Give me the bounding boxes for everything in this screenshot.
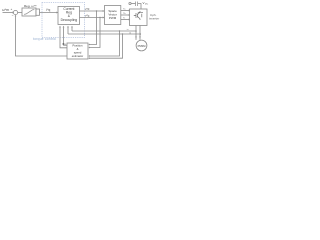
svg-text:PWM: PWM [109,16,117,20]
svg-text:DC: DC [145,4,149,6]
arrow gate b [129,14,131,16]
arrow gate c [129,19,131,21]
dc terminal [129,2,131,4]
arrow omega up [63,26,65,28]
svg-text:v*q: v*q [85,14,90,18]
wire vd out [80,10,103,12]
svg-text:torque control: torque control [33,37,56,41]
dashed box torque control [42,3,85,38]
svg-text:ω*m: ω*m [2,8,9,12]
limiter ramp symbol [24,10,34,15]
svg-text:v*d: v*d [85,7,90,11]
wire vq out [80,17,103,19]
wire sum to regulator [18,12,22,14]
junction tap b [140,33,142,35]
arrow iq into reg [56,12,58,14]
inverter block [130,9,148,26]
estimator block [67,43,88,59]
wire theta up [64,27,68,45]
wire current fb a [72,30,136,32]
arrow fb b up [67,26,69,28]
summing node S1 [13,10,17,14]
arrow into sum [12,12,14,14]
arrow est in4 [88,57,90,59]
wire omega up [60,27,67,48]
svg-text:estimator: estimator [72,54,84,58]
phase line b [139,26,141,40]
wire dc to inverter [138,4,141,10]
arrow gate a [129,10,131,12]
wire iq ref [40,12,57,14]
junction tap a [135,30,137,32]
wire gate c [121,19,129,21]
arrow theta up [59,26,61,28]
current regulator block U1 [58,7,80,25]
arrow vd [103,10,105,12]
limiter box [36,9,40,15]
wire gate b [121,14,129,16]
svg-text:PMSM: PMSM [138,44,146,48]
wire speed feedback [16,16,68,56]
wire to estimator in4 [90,34,123,58]
phase line a [135,26,137,40]
svg-text:−: − [12,14,14,18]
SVPWM block [105,6,121,25]
wire fb a up to reg [71,27,73,31]
arrow phase b [139,37,141,39]
wire gate a [121,10,129,12]
svg-text:Reg. ω: Reg. ω [24,4,34,8]
arrow speed fb up [15,15,17,17]
svg-text:θ̂m: θ̂m [62,43,65,46]
junction fb3 [119,30,120,31]
arrow est in1 [88,44,90,46]
capacitor C1 [136,2,138,7]
svg-text:Decoupling: Decoupling [61,18,78,22]
svg-text:+: + [11,7,13,11]
wire current fb b [68,33,140,35]
arrow vq [103,17,105,19]
wire speed ref arrow [3,12,13,14]
transistor Q1 [134,11,143,20]
motor PMSM [136,40,147,51]
wire to estimator in1 [90,11,97,45]
arrow est in3 [88,55,90,57]
wire to estimator in3 [90,31,120,56]
svg-text:inverter: inverter [149,16,159,20]
junction fb4 [122,33,123,34]
arrow phase a [135,37,137,39]
svg-text:i*q: i*q [47,8,51,12]
wire fb b up to reg [67,27,69,34]
wire to estimator in2 [90,18,100,48]
arrow est in2 [88,47,90,49]
arrow fb a up [71,26,73,28]
speed regulator block [22,8,36,16]
wire dc bus [131,3,135,5]
